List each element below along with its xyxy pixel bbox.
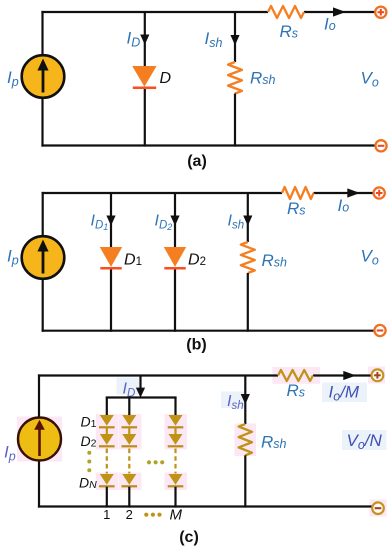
ellipsis dots between column 2 and column M (c) (147, 460, 164, 464)
highlight box: (c) label Vo/N (342, 430, 387, 450)
terminal + (a) (375, 7, 386, 18)
diode D2 column M (c) (168, 434, 184, 446)
wire: (b) diode D2 branch lower (174, 270, 176, 332)
diode D2 column 1 (c) (99, 434, 115, 446)
diode DN column 2 (c) (122, 474, 138, 486)
terminal - (b) (374, 325, 385, 336)
wire: (c) bottom node (38, 505, 372, 507)
highlight box: (c) diode column 2 rows D1-D2 (119, 414, 141, 450)
wire: (c) column 2 stub from bus (128, 398, 130, 416)
wire: (b) bottom node (42, 330, 375, 332)
svg-text:(c): (c) (179, 529, 199, 546)
current arrow Ish (b) (243, 216, 252, 226)
current arrow ID1 (b) (106, 216, 115, 226)
highlight box: (c) diode column M rows D1-D2 (165, 414, 188, 450)
wire: (b) Rs to + terminal (314, 192, 374, 194)
highlight box: (c) - terminal (370, 500, 387, 517)
resistor Rsh (c) (239, 424, 252, 455)
resistor Rsh (b) (241, 242, 255, 273)
wire: (c) column 1 stub from bus (106, 398, 108, 416)
highlight box: (c) diode column 1 rows D1-D2 (96, 414, 119, 450)
wire: (a) bottom node (41, 144, 375, 146)
highlight box: (c) label Io/M (322, 383, 367, 403)
diode D1 column 2 (c) (122, 415, 138, 427)
highlight box: (c) label ID (117, 378, 140, 395)
diode DN column M (c) (168, 474, 184, 486)
wire: (c) top node, Ip to Rs (38, 374, 278, 376)
diode D (a) (132, 66, 156, 88)
current arrow Ish (a) (230, 35, 239, 45)
wire: (c) shunt branch lower (244, 455, 246, 507)
wire: (b) left branch lower (42, 278, 44, 332)
svg-text:Vo/N: Vo/N (347, 431, 383, 452)
wire: (c) Rs to + terminal (313, 374, 372, 376)
wire: (b) top node, Ip to Rs (42, 192, 282, 194)
highlight box: (c) + terminal (368, 367, 385, 384)
current source Ip (a) (22, 55, 65, 98)
terminal - (c) (372, 502, 384, 514)
diode DN column 1 (c) (99, 474, 115, 486)
current arrow ID (c) (136, 388, 145, 398)
wire: (c) column 1 to bottom node (106, 487, 108, 508)
highlight box: (c) diode column 1 row DN (96, 473, 119, 491)
wire: (c) column M link D1-D2 (174, 427, 176, 434)
diode D1 column 1 (c) (99, 415, 115, 427)
current source Ip (b) (22, 236, 65, 279)
diode D1 (b) (100, 247, 122, 268)
highlight box: (c) diode column 2 row DN (119, 473, 141, 491)
wire: (a) Rs to + terminal (304, 11, 375, 13)
diode D1 column M (c) (168, 415, 184, 427)
wire: (b) diode D2 branch upper (174, 193, 176, 248)
highlight box: (c) current source (17, 417, 62, 462)
wire: (b) left branch upper (42, 192, 44, 237)
svg-text:(b): (b) (186, 337, 206, 354)
wire: (a) top node, Ip to Rs (41, 11, 268, 13)
diode D2 column 2 (c) (122, 434, 138, 446)
current arrow Ish (c) (241, 394, 250, 404)
wire: (a) diode branch upper (144, 12, 146, 67)
diode D2 (b) (164, 247, 186, 268)
wire: (a) shunt branch lower (234, 94, 236, 147)
wire: (a) diode branch lower (144, 89, 146, 147)
resistor Rsh (a) (228, 62, 242, 94)
wire: (c) left branch lower (38, 460, 40, 508)
resistor Rs (a) (268, 6, 304, 18)
highlight box: (c) diode column M row DN (165, 473, 188, 491)
wire: (c) shunt branch upper (244, 376, 246, 425)
svg-text:(a): (a) (187, 153, 207, 170)
wire: (c) column 2 dashed link D2-DN (128, 449, 130, 474)
wire: (c) left branch upper (38, 374, 40, 418)
current source Ip (c) (18, 418, 61, 461)
highlight box: (c) Rs (273, 367, 321, 384)
highlight box: (c) Rsh (235, 424, 257, 457)
ellipsis dots between column numbers 2 and M (c) (144, 513, 161, 517)
ellipsis dots left of diode array (c) (87, 451, 91, 472)
svg-text:1: 1 (103, 507, 110, 522)
terminal - (a) (375, 140, 386, 151)
wire: (a) left branch lower (41, 97, 43, 147)
current arrow Io/M (c) (343, 371, 356, 380)
svg-text:D: D (160, 70, 172, 87)
terminal + (b) (374, 187, 385, 198)
wire: (c) diode array top bus (106, 396, 177, 398)
svg-text:2: 2 (126, 507, 133, 522)
highlight box: (c) label Ish (221, 392, 245, 409)
wire: (c) column 2 link D1-D2 (128, 427, 130, 434)
svg-text:M: M (170, 507, 183, 524)
wire: (c) column M dashed link D2-DN (174, 449, 176, 474)
svg-text:Io/M: Io/M (329, 383, 360, 404)
wire: (c) column M stub from bus (174, 398, 176, 416)
wire: (b) shunt branch lower (247, 273, 249, 332)
wire: (c) column M to bottom node (174, 487, 176, 508)
current arrow ID2 (b) (170, 216, 179, 226)
terminal + (c) (372, 369, 384, 381)
current arrow Io (b) (347, 188, 360, 197)
wire: (c) ID stub from top node to diode bus (139, 376, 141, 392)
wire: (c) column 1 dashed link D2-DN (106, 449, 108, 474)
current arrow ID (a) (140, 35, 149, 45)
wire: (a) shunt branch upper (234, 12, 236, 62)
current arrow Io (a) (333, 7, 346, 16)
resistor Rs (c) (278, 370, 313, 381)
wire: (c) column 2 to bottom node (128, 487, 130, 508)
wire: (a) left branch upper (41, 11, 43, 56)
wire: (b) diode D1 branch lower (110, 270, 112, 332)
wire: (b) diode D1 branch upper (110, 193, 112, 248)
resistor Rs (b) (282, 187, 314, 199)
wire: (b) shunt branch upper (247, 193, 249, 242)
wire: (c) column 1 link D1-D2 (106, 427, 108, 434)
